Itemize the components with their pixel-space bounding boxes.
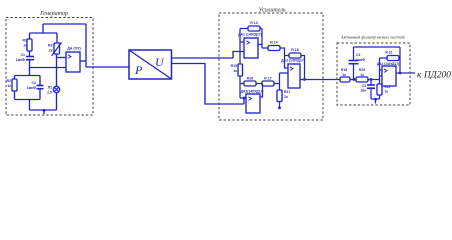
wire output 2 rise — [243, 97, 246, 104]
wire C1 bottom down to RC tank — [29, 60, 31, 76]
label R14 — [270, 41, 277, 45]
svg-text:ДА2(140УД17): ДА2(140УД17) — [241, 90, 264, 94]
svg-text:1мкФ: 1мкФ — [16, 58, 25, 62]
svg-text:R 14: R 14 — [270, 41, 277, 45]
label L1 — [47, 86, 52, 95]
wire R1 bottom to C1 — [29, 51, 31, 57]
capacitor C1 — [26, 57, 34, 60]
wire DA1 output to R14 — [262, 47, 268, 49]
label DA3 140UD17 — [281, 59, 305, 63]
wire jog y33 R1-to-pot — [30, 32, 58, 34]
wire C2 bottom lead — [39, 89, 41, 100]
svg-text:ДА (ОУ): ДА (ОУ) — [67, 47, 81, 51]
svg-text:1к: 1к — [284, 95, 288, 99]
op-amp DA1 — [244, 38, 258, 58]
wire C3 top rail feedback — [354, 46, 401, 48]
wire DA4 output — [396, 72, 415, 74]
lamp L1 — [53, 86, 59, 92]
wire output 1 rise — [233, 52, 244, 59]
wire pot bottom to lamp — [56, 54, 58, 87]
label R21 — [385, 51, 392, 55]
wire DA3 lower input node vertical — [279, 73, 281, 90]
wire R19 to R20 — [350, 78, 356, 81]
wire lamp bottom to ground rail — [56, 93, 58, 110]
wire R18 left lead — [285, 55, 290, 57]
wire RC tank bottom rail — [15, 99, 41, 101]
svg-text:2,5: 2,5 — [47, 91, 52, 95]
resistor R2 — [12, 79, 17, 91]
wire DA1 top input stub — [240, 41, 244, 43]
svg-text:1мк: 1мк — [360, 89, 366, 93]
op-amp DA2 — [246, 94, 260, 113]
resistor R18 feedback DA3 — [289, 53, 301, 58]
svg-text:2к: 2к — [49, 49, 53, 53]
svg-text:ДА3 (140УД17): ДА3 (140УД17) — [281, 59, 305, 63]
resistor R1 — [27, 39, 32, 51]
capacitor C3 feedback — [349, 47, 359, 80]
wire R17 right lead — [274, 83, 280, 85]
capacitor C2 — [37, 86, 44, 89]
svg-text:Л1: Л1 — [48, 86, 52, 90]
wire C2 top lead — [39, 76, 41, 86]
wire generator output to converter — [86, 66, 129, 68]
ground stub with node — [43, 109, 46, 114]
label DA2 140UD17 — [241, 90, 264, 94]
svg-text:С2: С2 — [32, 81, 37, 85]
svg-text:Активный фильтр низких частот: Активный фильтр низких частот — [340, 35, 405, 40]
wire R16 left tap — [240, 83, 244, 85]
label R18 — [291, 48, 298, 52]
label C3 1мкФ — [356, 53, 365, 62]
svg-text:1мкФ: 1мкФ — [27, 86, 36, 90]
wire converter output 2 — [172, 64, 245, 105]
svg-text:U: U — [155, 55, 165, 69]
resistor R13 feedback DA1 — [248, 26, 260, 31]
resistor R16 feedback DA2 — [244, 81, 256, 86]
potentiometer R3 — [52, 43, 62, 57]
resistor R17v to ground — [277, 90, 282, 102]
block Active low-pass filter dashed border — [337, 43, 410, 105]
wire ground rail — [30, 109, 57, 111]
svg-text:R 18: R 18 — [291, 48, 298, 52]
label R22 1к — [385, 85, 391, 94]
resistor R15 gain — [238, 64, 243, 76]
label C4 — [360, 84, 366, 93]
label C2 1мкФ — [27, 81, 36, 90]
label DA (OU) — [67, 47, 81, 51]
label R16 — [247, 77, 253, 81]
label R19 1к — [341, 68, 347, 77]
label R15 1к — [231, 64, 238, 73]
wire R14 to DA3 input vertical — [280, 48, 288, 68]
svg-text:С1: С1 — [21, 53, 26, 57]
svg-text:С3: С3 — [356, 53, 360, 57]
wire DA2 top input stub — [240, 97, 246, 99]
svg-text:R20: R20 — [359, 68, 365, 72]
label U — [155, 55, 165, 69]
label R17v 1к — [284, 90, 290, 99]
label R17 — [264, 77, 271, 81]
label P — [134, 63, 143, 77]
svg-text:1к: 1к — [23, 44, 27, 48]
wire output feedback vertical — [399, 47, 402, 74]
wire left vertical chain DA1 inverting — [239, 29, 241, 99]
wire ground rail filter — [371, 98, 380, 104]
svg-text:R2: R2 — [7, 79, 12, 83]
converter P-to-U box — [129, 50, 172, 79]
wire DA4 bottom input stub — [380, 75, 383, 77]
wire tank drop to ground rail — [29, 100, 31, 111]
label к ПД200 — [417, 71, 451, 81]
wire feedback vertical — [85, 24, 87, 67]
wire DA1 output stub — [258, 44, 262, 46]
svg-text:1к: 1к — [233, 69, 237, 73]
svg-text:ДА1 (140УД17): ДА1 (140УД17) — [238, 33, 262, 37]
label R2 1к — [7, 79, 12, 88]
svg-text:ДА4 (140УД17): ДА4 (140УД17) — [377, 62, 399, 66]
label R20 1к — [359, 68, 365, 77]
svg-text:R3: R3 — [48, 44, 53, 48]
svg-text:R15: R15 — [231, 64, 237, 68]
wire RC tank top rail — [15, 75, 41, 77]
op-amp DA generator — [66, 52, 80, 72]
svg-text:1к: 1к — [385, 90, 389, 94]
svg-text:R19: R19 — [341, 68, 347, 72]
wire R2 top lead — [14, 76, 16, 80]
label Генератор — [39, 11, 68, 17]
wire rail drop to jog — [42, 24, 44, 33]
svg-text:R1: R1 — [23, 39, 28, 43]
resistor R21 feedback — [387, 56, 399, 61]
svg-text:к ПД200: к ПД200 — [417, 71, 451, 81]
wire output rail y24 — [43, 23, 86, 25]
op-amp DA4 — [382, 66, 396, 86]
label Усилитель — [258, 8, 285, 14]
block Amplifier dashed border — [219, 13, 323, 120]
wire R1 top lead — [29, 33, 31, 39]
wire tap to opamp inverting input — [57, 57, 67, 59]
wire R18 right lead to output — [301, 56, 305, 80]
block Generator dashed border — [6, 18, 93, 116]
svg-text:R 17: R 17 — [264, 77, 271, 81]
label R1 1к — [23, 39, 28, 48]
wire R2 bottom lead — [14, 91, 16, 100]
label DA4 140UD17 — [377, 62, 399, 66]
wire DA3 lower input stub — [280, 72, 289, 74]
label R3 2к — [48, 44, 53, 53]
wire tap to opamp noninverting input — [30, 67, 67, 69]
wire DA1 feedback right vertical — [261, 29, 263, 49]
svg-text:R17: R17 — [284, 90, 290, 94]
wire inverting chain vertical — [379, 58, 381, 99]
svg-text:С4: С4 — [362, 84, 366, 88]
resistor R22 to ground — [377, 84, 382, 95]
svg-text:R 21: R 21 — [385, 51, 392, 55]
resistor R14 — [268, 46, 280, 51]
svg-text:1к: 1к — [7, 84, 11, 88]
wire R13 right lead — [260, 28, 262, 30]
wire opamp output stub — [80, 60, 86, 62]
wire DA2 output stub — [260, 84, 263, 98]
svg-text:P: P — [134, 63, 143, 77]
label Активный фильтр низких частот — [340, 35, 405, 40]
wire R17v ground stub with node — [278, 102, 281, 110]
svg-text:1мкФ: 1мкФ — [356, 58, 365, 62]
resistor R19 — [340, 77, 350, 82]
resistor R17 series — [262, 81, 274, 86]
wire R21 right lead — [399, 57, 400, 59]
label R13 — [250, 21, 257, 25]
wire pot top lead — [56, 33, 58, 43]
svg-text:R 13: R 13 — [250, 21, 257, 25]
op-amp DA3 — [288, 64, 300, 88]
wire R20 to node B — [368, 78, 380, 81]
wire R16 right lead — [256, 83, 262, 85]
resistor R20 — [356, 77, 368, 82]
wire DA3 output — [300, 78, 340, 81]
wire R21 left lead — [380, 57, 388, 59]
label DA1 140UD17 — [238, 33, 262, 37]
label C1 1мкФ — [16, 53, 25, 62]
wire DA4 top input stub — [380, 69, 383, 71]
svg-text:Усилитель: Усилитель — [258, 8, 285, 14]
svg-text:R16: R16 — [247, 77, 253, 81]
wire converter output 1 — [172, 57, 234, 59]
svg-text:1к: 1к — [342, 73, 346, 77]
wire R13 left lead — [240, 28, 248, 30]
svg-text:Генератор: Генератор — [39, 11, 68, 17]
svg-text:1к: 1к — [360, 73, 364, 77]
capacitor C4 to ground — [367, 80, 375, 100]
